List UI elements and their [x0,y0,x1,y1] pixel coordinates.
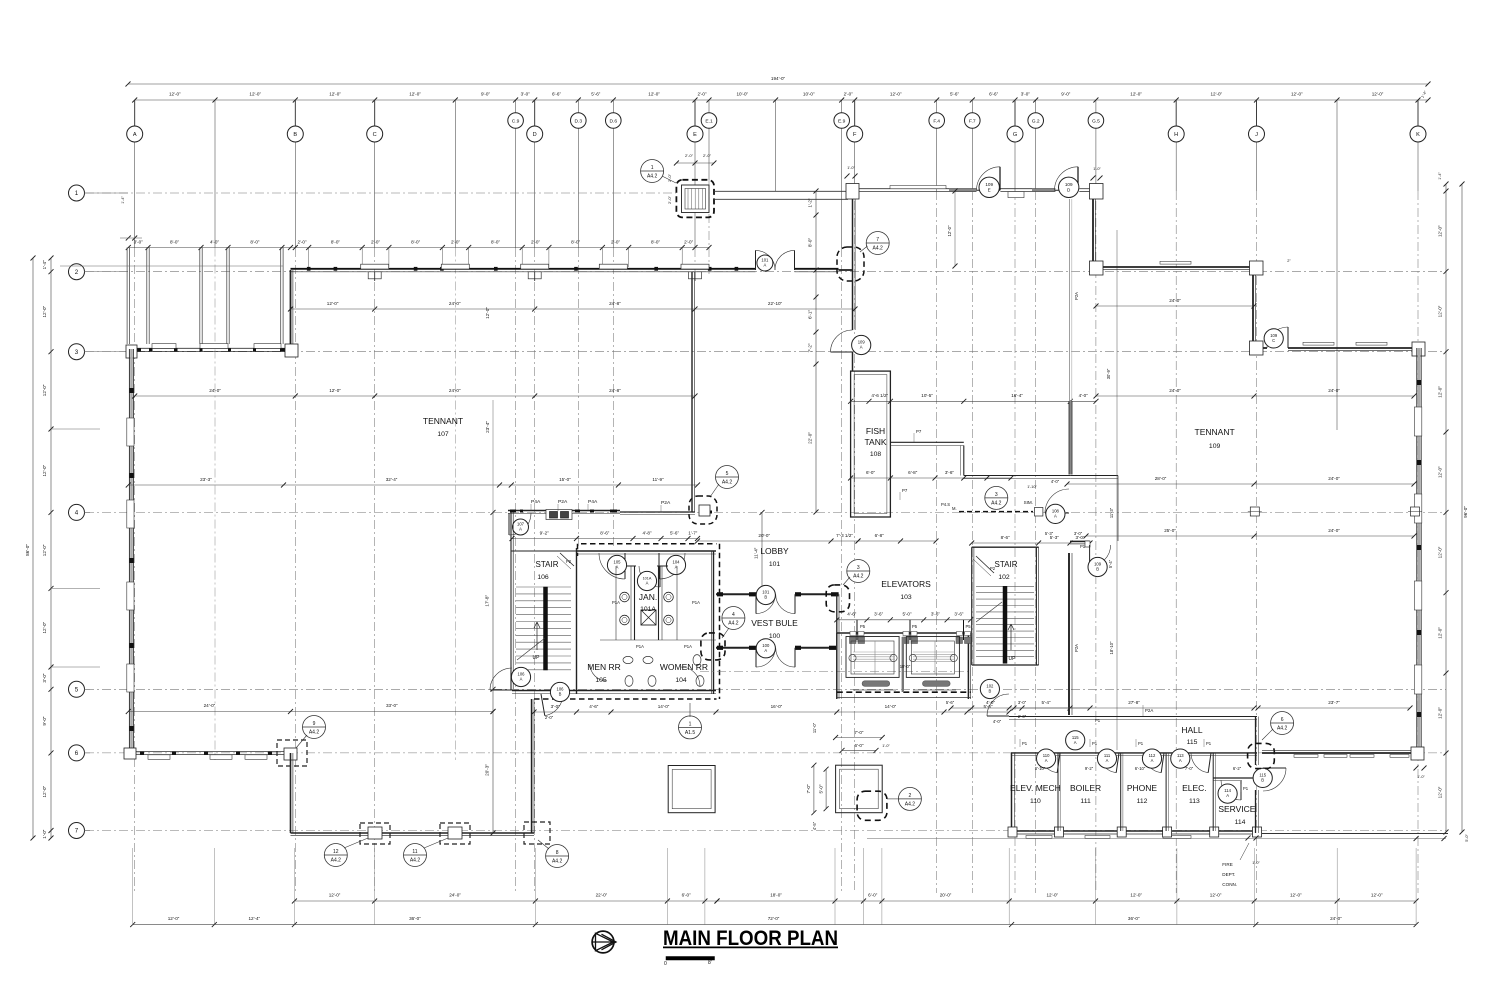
svg-text:2: 2 [909,793,912,799]
svg-text:3'-6”: 3'-6” [945,470,955,475]
svg-text:19'-0”: 19'-0” [900,664,911,669]
svg-text:P1: P1 [1095,718,1101,723]
svg-text:G: G [1013,132,1017,138]
svg-text:E.9: E.9 [838,118,846,124]
stair 106 top wall [511,550,576,552]
door 102B [987,694,1009,716]
svg-text:D: D [533,132,537,138]
svg-text:B: B [764,595,767,600]
svg-text:18'-0”: 18'-0” [770,893,782,898]
svg-text:1'-10”: 1'-10” [1027,485,1037,489]
svg-text:22'-0”: 22'-0” [808,432,813,444]
svg-text:24'-0”: 24'-0” [449,388,461,393]
double entry door 101A [756,250,776,270]
row grid lines (dash-dot) [85,192,676,194]
dim marks at service corner [1246,836,1251,841]
row 7 south wall [291,832,535,834]
svg-text:101: 101 [769,561,781,568]
svg-text:P5: P5 [860,624,866,629]
svg-text:P1A: P1A [612,600,620,605]
svg-text:11: 11 [412,849,417,855]
svg-text:A4.2: A4.2 [552,859,563,865]
svg-text:12'-0”: 12'-0” [1438,546,1443,558]
svg-text:G.2: G.2 [1032,118,1040,124]
row1 north wall F to G.5 [859,188,977,190]
svg-text:C: C [373,132,377,138]
svg-text:36'-0”: 36'-0” [1128,916,1140,921]
svg-text:A4.2: A4.2 [331,858,342,864]
detail circle 12/A4.2 [324,844,347,867]
grid bubbles, letters [127,126,143,142]
svg-text:6'-6”: 6'-6” [989,92,999,97]
svg-text:6: 6 [1281,717,1284,723]
svg-text:A: A [1074,740,1077,745]
svg-text:24'-0”: 24'-0” [449,301,461,306]
north arrow [592,931,614,953]
svg-text:30'-9”: 30'-9” [1106,368,1111,379]
svg-text:6'-8”: 6'-8” [875,533,885,538]
row6 wall east of service [1262,752,1414,754]
annex walls [1070,475,1118,477]
svg-text:2'-0”: 2'-0” [844,92,854,97]
svg-text:B: B [1261,777,1264,782]
west wall black jambs [129,388,133,393]
svg-text:9'-2”: 9'-2” [540,531,550,536]
svg-text:6: 6 [75,750,79,757]
elevator center divider [902,637,904,692]
toilet partitions [615,566,617,640]
svg-text:12'-0”: 12'-0” [1438,707,1443,719]
fish tank [851,371,891,517]
left overall dimension 86'-0" [32,258,34,838]
svg-text:2'-0”: 2'-0” [685,153,694,158]
svg-text:1'-0”: 1'-0” [42,829,47,839]
svg-text:UP: UP [533,655,541,661]
long thin line x=1117 [1116,230,1118,750]
svg-text:8'-0”: 8'-0” [808,238,813,248]
svg-text:2'-0”: 2'-0” [667,195,672,204]
svg-text:12'-0”: 12'-0” [1438,466,1443,478]
svg-text:194'-0”: 194'-0” [771,76,786,81]
row1 wall F corner pilaster [846,184,859,200]
detail 3/A4.2 elevator corner [847,560,870,583]
svg-text:P1: P1 [1080,544,1086,549]
stair 102 walls [972,546,1039,548]
svg-text:12'-0”: 12'-0” [42,384,47,396]
bottom dim line inner [294,900,717,902]
men RR inner door arc [590,664,607,681]
svg-text:P2A: P2A [1074,292,1079,300]
svg-text:12'-0”: 12'-0” [1371,893,1383,898]
dashed detail rounded rect at core SE [701,633,725,660]
svg-text:1: 1 [651,165,654,171]
vertical dim x=493 [492,512,494,833]
svg-text:24'-8”: 24'-8” [609,301,621,306]
stair 106 P2 diagonal [560,553,574,566]
door 101A-A jan [639,566,660,587]
svg-text:7'-2”: 7'-2” [808,343,813,353]
svg-text:24'-0”: 24'-0” [209,388,221,393]
wall E row2 down to row4 [691,272,693,512]
svg-text:DEPT.: DEPT. [1222,872,1235,877]
svg-text:P1A: P1A [636,644,644,649]
svg-text:A4.2: A4.2 [410,858,421,864]
elevator lobby west wall [836,594,838,633]
svg-text:27'-8”: 27'-8” [1128,700,1140,705]
svg-text:6'-8”: 6'-8” [908,470,918,475]
svg-text:1: 1 [689,721,692,727]
svg-text:33'-0”: 33'-0” [386,703,398,708]
svg-text:A1.5: A1.5 [685,730,696,736]
east wall windows [1414,407,1421,436]
svg-text:4'-6 1/2”: 4'-6 1/2” [871,393,888,398]
svg-text:23'-7”: 23'-7” [1328,700,1340,705]
svg-text:7'-3 1/2”: 7'-3 1/2” [836,533,853,538]
svg-text:4'-6”: 4'-6” [589,704,599,709]
G.5 corner pilaster + wall down [1090,184,1104,200]
wall D from row7 up to core [531,699,533,833]
svg-text:ELEC.: ELEC. [1182,783,1207,793]
elevator car 2 [906,637,959,678]
svg-text:12'-0”: 12'-0” [1130,92,1142,97]
row2 wall G.5 to J [1103,266,1250,268]
svg-text:9'-0”: 9'-0” [42,716,47,726]
svg-text:12'-0”: 12'-0” [42,305,47,317]
elevator dim line [837,619,971,621]
svg-text:24'-0”: 24'-0” [204,703,216,708]
svg-text:8'-0”: 8'-0” [571,240,581,245]
svg-text:8: 8 [556,850,559,856]
svg-text:24'-0”: 24'-0” [1169,298,1181,303]
svg-text:A4.2: A4.2 [991,500,1002,506]
svg-text:7: 7 [876,237,879,243]
svg-text:SERVICE: SERVICE [1218,804,1255,814]
svg-text:2'-0”: 2'-0” [545,715,554,720]
detail 5/A4.2 with dashed oval at E/4 [716,466,739,489]
svg-text:3'-0”: 3'-0” [42,673,47,683]
svg-text:A: A [764,263,767,268]
svg-text:ELEV. MECH: ELEV. MECH [1010,783,1061,793]
svg-text:A4.2: A4.2 [309,730,320,736]
long dim line right of service y=838.5 [867,838,1446,840]
svg-text:12'-0”: 12'-0” [329,388,341,393]
hall north wall [1074,716,1258,718]
svg-text:105: 105 [595,677,607,684]
right overall dimension 96'-0" [1461,184,1463,832]
door 108A east jamb [1035,508,1043,517]
svg-text:28'-0”: 28'-0” [1155,476,1167,481]
door 107A [509,513,531,535]
svg-text:2'-0”: 2'-0” [703,153,712,158]
pad square east [836,765,883,813]
bottom overall dim line [133,924,1416,926]
svg-text:LOBBY: LOBBY [760,546,789,556]
detail 7/A4.2 dashed at E.9 corner [837,247,864,281]
svg-text:4'-0”: 4'-0” [986,700,996,705]
svg-text:A: A [1151,758,1154,763]
door 109C [1267,327,1288,348]
svg-text:1'-0”: 1'-0” [1417,775,1425,779]
svg-text:1'-0”: 1'-0” [847,166,855,170]
svg-text:24'-8”: 24'-8” [609,388,621,393]
detail circle 9/A4.2 [303,716,326,739]
scale bar [666,957,715,961]
svg-text:G.5: G.5 [1092,118,1100,124]
svg-text:12'-0”: 12'-0” [1372,92,1384,97]
detail 6/A4.2 [1271,712,1294,735]
svg-text:12'-4”: 12'-4” [248,916,260,921]
east wall black jambs [1417,380,1421,385]
row3 wall to K [1288,347,1414,349]
door 105A arc [599,553,625,579]
svg-text:12'-0”: 12'-0” [169,92,181,97]
top bay dimension line [135,99,1428,101]
svg-text:11'-9”: 11'-9” [652,477,664,482]
svg-text:A: A [860,345,863,350]
svg-text:12'-0”: 12'-0” [1438,225,1443,237]
extension lines from top dim to bubbles [134,100,136,127]
svg-text:PHONE: PHONE [1127,783,1158,793]
svg-text:BOILER: BOILER [1070,783,1101,793]
svg-text:24'-0”: 24'-0” [449,893,461,898]
svg-text:P1A: P1A [684,644,692,649]
svg-text:12'-0”: 12'-0” [329,893,341,898]
rooms west wall [1011,753,1013,833]
T jambs below row2 wall [368,272,381,279]
svg-text:MEN RR: MEN RR [587,662,621,672]
svg-text:8'-6”: 8'-6” [600,531,610,536]
svg-text:101A: 101A [640,606,656,613]
north storefront wall row 2 [291,268,756,270]
svg-text:16'-0”: 16'-0” [771,704,783,709]
J pilaster + wall down [1250,261,1264,275]
svg-text:3'-0”: 3'-0” [1021,92,1031,97]
left dimension line [50,258,52,838]
svg-text:A: A [1226,793,1229,798]
svg-text:A: A [520,677,523,682]
svg-text:9'-2”: 9'-2” [1085,766,1094,771]
svg-text:6'-0”: 6'-0” [682,893,692,898]
svg-text:6'-10”: 6'-10” [1035,766,1046,771]
svg-text:0: 0 [664,961,667,967]
svg-text:10'-0”: 10'-0” [803,92,815,97]
detail 4/A4.2 [722,607,745,630]
dim row y=538 core [512,538,698,540]
svg-text:UP: UP [1009,656,1017,662]
svg-text:5'-6”: 5'-6” [591,92,601,97]
storefront mullion extensions row2 [308,248,310,268]
bottom extension lines [132,848,134,925]
E.1 column detail square [676,180,714,218]
svg-text:ELEVATORS: ELEVATORS [881,579,931,589]
svg-text:5'-0”: 5'-0” [1465,834,1469,842]
svg-text:4'-0”: 4'-0” [993,719,1002,724]
svg-text:A: A [1179,758,1182,763]
svg-text:104: 104 [675,677,687,684]
door 106A [490,668,512,690]
svg-text:H: H [1174,132,1178,138]
svg-text:6'-2”: 6'-2” [1233,766,1242,771]
row 3 west wall [130,347,295,349]
canopy dim line at top-left [128,247,709,249]
svg-text:110: 110 [1030,798,1041,805]
svg-text:15'-0”: 15'-0” [559,477,571,482]
stair 102 P2 diagonal [976,556,994,573]
svg-text:14'-0”: 14'-0” [885,704,897,709]
svg-text:1'-0”: 1'-0” [1093,167,1101,171]
svg-text:72'-0”: 72'-0” [768,916,780,921]
svg-text:22'-10”: 22'-10” [768,301,783,306]
wall connector row2 to F wall [839,269,853,271]
svg-text:4: 4 [75,510,79,517]
svg-text:2'-0”: 2'-0” [611,240,621,245]
svg-text:TENNANT: TENNANT [423,416,463,426]
door 106B [545,694,563,716]
wall east of stair down to hall [1068,553,1070,715]
svg-text:3'-6”: 3'-6” [954,612,964,617]
svg-text:20'-0”: 20'-0” [940,893,952,898]
tenant 109 dims [1096,305,1254,307]
svg-text:9'-0”: 9'-0” [481,92,491,97]
svg-text:6'-10”: 6'-10” [1135,766,1146,771]
detail circle 11/A4.2 [404,844,427,867]
canopy edge line x=1070 [1069,199,1071,401]
rooms bottom wall [1011,830,1261,832]
svg-text:WOMEN RR: WOMEN RR [660,662,708,672]
svg-text:A: A [1106,758,1109,763]
svg-text:3'-0”: 3'-0” [1018,700,1027,705]
svg-text:7'-0”: 7'-0” [1185,766,1194,771]
overall top dimension 194'-0" [128,83,1428,85]
svg-text:4'-0”: 4'-0” [1079,393,1089,398]
svg-text:20'-0”: 20'-0” [758,533,770,538]
west exterior wall [128,349,130,753]
svg-text:P1: P1 [1243,786,1249,791]
svg-text:8'-0”: 8'-0” [250,240,260,245]
1'-0 ticks near K row6 [1414,766,1419,771]
svg-text:16'-4”: 16'-4” [1011,393,1023,398]
svg-text:K: K [1416,132,1420,138]
svg-text:6'-0”: 6'-0” [866,470,876,475]
svg-text:96'-0”: 96'-0” [1463,506,1468,518]
svg-text:A4.2: A4.2 [722,480,733,486]
svg-text:102: 102 [998,574,1010,581]
svg-text:14'-0”: 14'-0” [658,704,670,709]
svg-text:12'-0”: 12'-0” [409,92,421,97]
svg-text:2: 2 [75,269,79,276]
svg-text:12'-0”: 12'-0” [890,92,902,97]
svg-text:B: B [989,689,992,694]
svg-text:4'-5”: 4'-5” [812,821,817,830]
svg-text:1'-0”: 1'-0” [1252,861,1260,865]
stair 102 break diagonal [976,602,1002,622]
svg-text:12'-0”: 12'-0” [485,307,490,319]
svg-text:8'-0”: 8'-0” [651,240,661,245]
svg-text:2'-0”: 2'-0” [1018,714,1027,719]
door tag 101A [757,255,773,271]
tenant 107 interior dim row y=396 [135,395,695,397]
svg-text:3'-6”: 3'-6” [874,612,884,617]
pad dims [836,737,883,739]
svg-text:STAIR: STAIR [995,560,1018,569]
svg-text:A4.2: A4.2 [1277,726,1288,732]
door 114A service [1221,780,1241,800]
elevator car 1 [846,637,899,678]
column squares at grid intersections [1250,507,1259,516]
long wall line right of service y=833.5 [1262,833,1448,835]
canopy columns A-B [126,248,128,345]
svg-text:2'-0”: 2'-0” [297,240,307,245]
svg-text:12'-0”: 12'-0” [1438,305,1443,317]
svg-text:12'-0”: 12'-0” [1290,893,1302,898]
door 109B [1090,545,1111,566]
corridor wall row4 with janitor counter [508,510,620,512]
svg-text:3'-0”: 3'-0” [521,92,531,97]
svg-text:109: 109 [1209,443,1221,450]
svg-text:J: J [1255,132,1258,138]
svg-text:STAIR: STAIR [536,560,559,569]
svg-text:A4.2: A4.2 [873,246,884,252]
svg-text:P5: P5 [966,624,972,629]
rooms top wall row6 [1011,752,1257,754]
svg-text:P4A: P4A [588,499,598,505]
svg-text:1: 1 [75,190,79,197]
svg-text:P4A: P4A [531,499,541,505]
svg-text:8'-0”: 8'-0” [491,240,501,245]
svg-text:115: 115 [1187,739,1198,746]
svg-text:112: 112 [1137,798,1148,805]
svg-text:5'-3”: 5'-3” [1045,531,1054,536]
grid bubbles, numbers [69,185,85,201]
mop sink crossed square [641,610,656,625]
fish tank dim bottom [851,477,1011,479]
svg-text:VEST BULE: VEST BULE [751,618,798,628]
svg-text:1'-4”: 1'-4” [42,260,47,270]
tenant 107 interior dim row y=309 [291,308,856,310]
restroom block outer walls [577,550,717,552]
svg-text:24'-0”: 24'-0” [1330,916,1342,921]
canopy beam lines row1 [714,190,848,192]
svg-text:109: 109 [985,182,993,187]
svg-text:7: 7 [75,828,79,835]
svg-text:36'-0”: 36'-0” [409,916,421,921]
stair 106 west wall [510,512,512,689]
core bottom dim [534,711,1009,713]
svg-text:7'-0”: 7'-0” [854,730,864,735]
svg-text:9'-0”: 9'-0” [1061,92,1071,97]
svg-text:12'-0”: 12'-0” [1130,893,1142,898]
column grid lines (dash-dot) [134,100,136,248]
detail circle 8/A4.2 right [546,845,569,868]
svg-text:12'-0”: 12'-0” [648,92,660,97]
svg-text:E: E [693,132,697,138]
door 109A west [831,330,853,352]
svg-text:5'-6”: 5'-6” [950,92,960,97]
svg-text:A: A [764,648,767,653]
svg-text:12'-0”: 12'-0” [1210,92,1222,97]
door bubbles rooms [1037,749,1056,768]
door 109E [977,167,1001,191]
svg-text:12'-0”: 12'-0” [42,464,47,476]
svg-text:3: 3 [995,492,998,498]
svg-text:109: 109 [1065,182,1073,187]
svg-text:6'-0”: 6'-0” [868,893,878,898]
svg-text:6'-0”: 6'-0” [854,743,864,748]
svg-text:P2A: P2A [661,500,671,506]
svg-text:12'-0”: 12'-0” [1046,893,1058,898]
door 108A (annex) [1045,489,1069,513]
vertical dim 12'-0 F area [954,191,956,266]
